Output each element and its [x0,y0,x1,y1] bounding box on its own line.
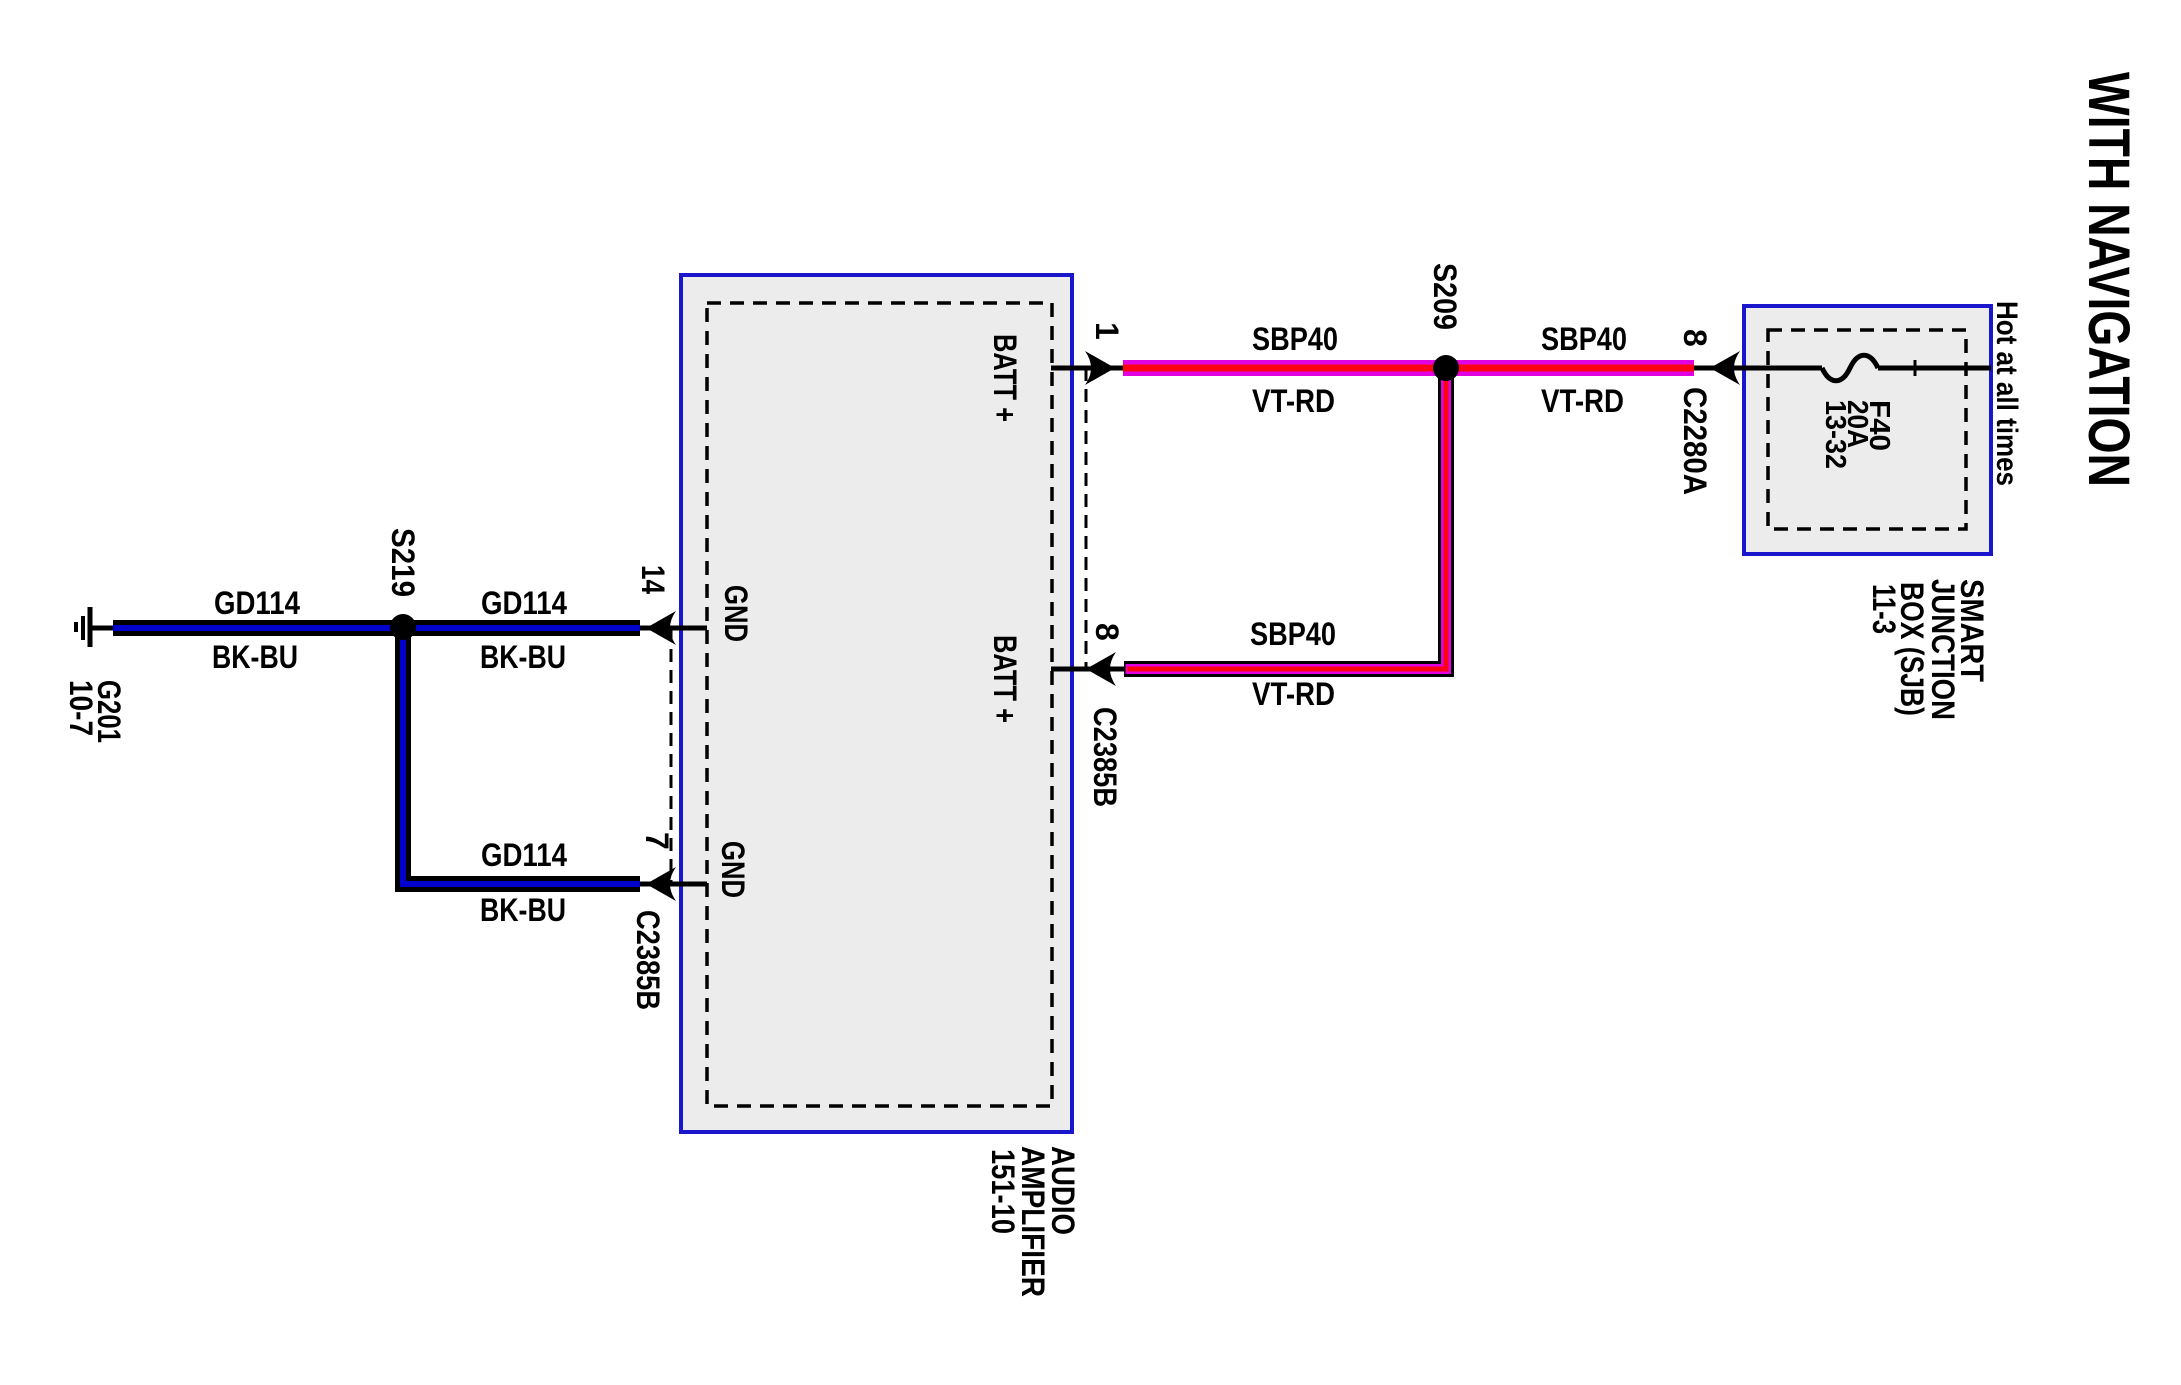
svg-text:13-32: 13-32 [1819,400,1851,469]
svg-text:GD114: GD114 [481,585,567,621]
svg-text:GND: GND [715,841,751,898]
svg-text:VT-RD: VT-RD [1252,383,1335,419]
svg-text:S209: S209 [1427,263,1463,330]
svg-text:S219: S219 [385,528,421,597]
svg-text:BATT +: BATT + [987,635,1023,723]
svg-text:SBP40: SBP40 [1252,321,1338,357]
svg-text:GD114: GD114 [214,585,300,621]
svg-text:VT-RD: VT-RD [1252,676,1335,712]
svg-text:C2280A: C2280A [1677,387,1713,495]
svg-text:C2385B: C2385B [630,910,666,1010]
svg-text:8: 8 [1089,623,1125,641]
svg-text:SBP40: SBP40 [1541,321,1627,357]
svg-text:14: 14 [635,565,671,594]
svg-text:1: 1 [1089,322,1125,340]
svg-text:8: 8 [1677,329,1713,347]
svg-text:VT-RD: VT-RD [1541,383,1624,419]
svg-text:BK-BU: BK-BU [480,892,566,928]
svg-text:151-10: 151-10 [985,1149,1021,1234]
svg-text:Hot at all times: Hot at all times [1990,301,2023,486]
svg-text:7: 7 [639,832,675,850]
svg-text:BATT +: BATT + [987,334,1023,422]
svg-text:BK-BU: BK-BU [480,639,566,675]
svg-text:SBP40: SBP40 [1250,616,1336,652]
svg-text:GND: GND [718,585,754,642]
svg-text:C2385B: C2385B [1087,707,1123,807]
svg-text:GD114: GD114 [481,837,567,873]
svg-text:10-7: 10-7 [63,680,99,736]
svg-text:11-3: 11-3 [1866,584,1902,634]
svg-text:WITH NAVIGATION: WITH NAVIGATION [2076,72,2141,487]
svg-text:BK-BU: BK-BU [212,639,298,675]
